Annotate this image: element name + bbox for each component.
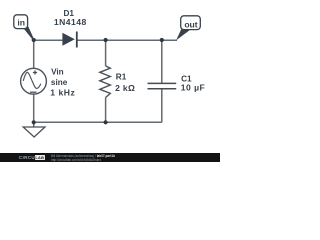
ground symbol xyxy=(23,122,45,137)
junction node dots xyxy=(32,38,164,125)
capacitor C1 symbol (plates) xyxy=(148,83,177,88)
svg-text:1N4148: 1N4148 xyxy=(54,17,87,27)
voltage source minus sign xyxy=(30,91,37,93)
svg-text:10 µF: 10 µF xyxy=(181,83,205,93)
svg-text:R1: R1 xyxy=(116,72,127,81)
voltage source sine wave xyxy=(23,72,40,88)
wire left vertical: in node down to source xyxy=(33,40,35,69)
wire top-right: diode cathode to out pointer xyxy=(77,39,177,41)
port flag in xyxy=(14,15,34,41)
svg-text:in: in xyxy=(17,18,25,28)
wire C1 bottom xyxy=(161,89,163,123)
wire top-left: node in to diode anode xyxy=(34,39,63,41)
voltage source plus sign xyxy=(33,70,37,74)
wire source bottom to ground node xyxy=(33,94,35,123)
svg-text:out: out xyxy=(184,19,197,29)
svg-text:sine: sine xyxy=(51,78,68,87)
resistor R1 symbol (zigzag) xyxy=(100,66,111,98)
port flag out xyxy=(176,16,200,41)
svg-text:1 kHz: 1 kHz xyxy=(50,88,75,98)
wire C1 top xyxy=(161,40,163,83)
wire bottom rail xyxy=(34,121,162,123)
wire R1 bottom xyxy=(105,98,107,123)
voltage source V1 circle xyxy=(21,68,47,94)
footer attribution bar xyxy=(0,153,220,162)
wire R1 top xyxy=(105,40,107,66)
footer CircuitLab logo xyxy=(19,156,40,161)
svg-text:Vin: Vin xyxy=(51,68,64,77)
diode D1 symbol xyxy=(62,32,76,48)
footer attribution text xyxy=(51,154,115,162)
svg-text:2 kΩ: 2 kΩ xyxy=(115,83,135,93)
